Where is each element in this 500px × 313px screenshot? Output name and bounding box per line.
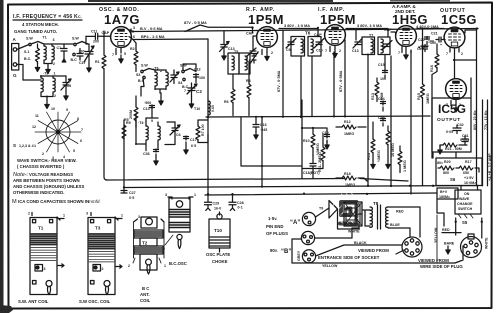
resistor R18 1MEG [336, 172, 367, 187]
variable cap C2 [184, 83, 202, 97]
switch S3 [136, 64, 149, 84]
svg-text:WAVE: WAVE [459, 197, 470, 201]
svg-text:7: 7 [81, 128, 83, 132]
capacitor C32 [446, 123, 464, 134]
svg-text:R18: R18 [344, 172, 351, 176]
junction dots [301, 127, 314, 129]
svg-text:R10: R10 [303, 139, 310, 143]
svg-text:R1: R1 [95, 60, 100, 64]
svg-text:R20: R20 [444, 160, 451, 164]
wires osc coil section [136, 105, 175, 151]
label 80V-1.0Ma RF plate [284, 23, 310, 28]
title OSC & MOD [99, 7, 140, 27]
svg-text:G: G [13, 73, 17, 78]
resistor R12 1MEG [336, 120, 366, 136]
svg-text:1: 1 [121, 214, 123, 218]
svg-text:10: 10 [51, 107, 55, 111]
tube U1 1A7G [111, 27, 132, 48]
resistor 10MEG [386, 126, 395, 169]
svg-text:1: 1 [63, 214, 65, 218]
svg-text:S6: S6 [450, 177, 456, 182]
junction dots bus116 [255, 115, 335, 118]
resistor R4 [224, 74, 235, 116]
svg-text:1A7G: 1A7G [104, 12, 140, 27]
wire bare [444, 218, 457, 254]
svg-text:R15: R15 [417, 93, 421, 100]
junction dots on buses [207, 185, 434, 196]
svg-text:GREY: GREY [297, 250, 301, 261]
label BC ANT COIL [140, 286, 151, 303]
tube U2 1P5M RF [257, 27, 278, 48]
wire T7 verticals [368, 55, 385, 187]
wires T6 down [301, 56, 312, 117]
title R.F. AMP [246, 7, 284, 27]
svg-text:1·5V.: 1·5V. [268, 216, 277, 221]
svg-text:12: 12 [32, 125, 36, 129]
label 87V - 0.5 Ma with callout [184, 20, 207, 32]
svg-text:WAVE SWITCH.- REAR VIEW.: WAVE SWITCH.- REAR VIEW. [17, 158, 77, 163]
tube U3 1P5M IF [325, 25, 346, 46]
capacitor C17 gang [79, 44, 94, 72]
svg-text:1P5M: 1P5M [248, 12, 284, 27]
label pin end of plugs [266, 224, 288, 236]
svg-text:CAP: CAP [102, 31, 110, 35]
wire 1C5G top to output [454, 49, 456, 78]
svg-text:3: 3 [44, 267, 46, 271]
svg-text:B.C: B.C [71, 58, 78, 62]
svg-text:C13: C13 [143, 107, 150, 111]
svg-text:S.W. ANT COIL: S.W. ANT COIL [18, 299, 49, 304]
svg-text:3: 3 [138, 215, 140, 219]
coil T4 osc plate [138, 118, 148, 145]
long vertical x411 [410, 50, 412, 186]
wire connector1 to speaker [316, 208, 360, 229]
bus A- y180 [106, 179, 408, 182]
bus B- y187 [124, 186, 478, 188]
svg-text:WHITE: WHITE [485, 237, 489, 249]
resistor R11 2MEG [318, 143, 325, 172]
svg-text:7: 7 [112, 53, 114, 57]
svg-text:R21 - 50M: R21 - 50M [445, 147, 462, 151]
capacitor C21 [417, 45, 428, 52]
svg-text:16·0: 16·0 [214, 207, 221, 211]
svg-text:C14: C14 [378, 97, 385, 101]
tube 1P5M RF pin stubs [257, 49, 273, 61]
svg-text:T1: T1 [38, 226, 44, 231]
svg-text:7: 7 [325, 49, 327, 53]
capacitor C29 16.0 [205, 194, 222, 210]
svg-text:PIN END: PIN END [266, 224, 283, 229]
svg-text:C15: C15 [378, 63, 385, 67]
svg-text:3 80V- 1·0 MA: 3 80V- 1·0 MA [357, 23, 382, 28]
svg-text:T10: T10 [214, 228, 222, 233]
IF transformer T6 [286, 31, 324, 57]
wire long vertical x208 (BP4 drop) [207, 39, 209, 195]
coil T2 BC ant primary [41, 72, 50, 97]
svg-text:S5: S5 [462, 220, 468, 225]
capacitor C28 0.1 [229, 194, 244, 210]
svg-text:ENTRANCE SIDE OF SOCKET: ENTRANCE SIDE OF SOCKET [318, 255, 380, 260]
pin dots 1A7G [133, 26, 135, 39]
vertical 87V line x283 [277, 31, 283, 117]
svg-text:COIL: COIL [140, 298, 151, 303]
svg-text:S.W: S.W [141, 64, 148, 68]
underline of IF frequency [13, 19, 82, 21]
svg-text:·045: ·045 [260, 128, 267, 132]
svg-text:B+V: B+V [440, 190, 448, 194]
svg-text:7: 7 [257, 51, 259, 55]
svg-text:YELLOW: YELLOW [322, 264, 338, 268]
choke T10 physical [209, 212, 230, 252]
wires R7 [198, 120, 208, 143]
battery plug A [268, 212, 316, 226]
svg-text:2: 2 [271, 51, 273, 55]
coil T2 physical BC ant [128, 215, 166, 274]
svg-text:C16: C16 [260, 123, 267, 127]
wire yellow B loop [292, 239, 309, 263]
svg-text:B.C.OSC: B.C.OSC [169, 261, 187, 266]
svg-text:T3: T3 [95, 226, 101, 231]
coil T4 tickler [151, 119, 160, 145]
bus y116 [206, 116, 430, 117]
wire C11 to tube cap [86, 36, 89, 44]
svg-text:M: M [12, 199, 17, 205]
coil T2 BC ant secondary [53, 72, 56, 99]
wire T2 top/bottom [23, 76, 66, 101]
svg-text:2: 2 [42, 152, 44, 156]
svg-text:6·5: 6·5 [191, 144, 196, 148]
svg-text:77V - 13 MA: 77V - 13 MA [484, 110, 488, 130]
output unit box [432, 98, 471, 152]
svg-text:IC5G: IC5G [438, 102, 466, 116]
label viewed from entrance [318, 248, 389, 260]
svg-text:6: 6 [133, 35, 135, 39]
svg-text:200M: 200M [129, 110, 133, 119]
speaker field coil [344, 202, 362, 226]
ground osc [159, 97, 163, 105]
svg-text:R2: R2 [130, 47, 135, 51]
svg-text:T10: T10 [194, 107, 200, 111]
svg-text:2: 2 [53, 62, 55, 66]
svg-text:0·1: 0·1 [238, 206, 243, 210]
capacitor C18b [418, 45, 428, 52]
svg-text:C36: C36 [143, 152, 150, 156]
resistor R9 [122, 121, 131, 139]
capacitor C16 [253, 117, 267, 139]
label CAP IF grid [384, 28, 396, 34]
svg-text:80V: 80V [437, 161, 443, 165]
label 40V-0.1Ma det plate [416, 24, 439, 29]
resistor R5 200M [124, 96, 138, 128]
svg-text:7: 7 [184, 89, 186, 93]
svg-text:BLACK: BLACK [354, 241, 367, 245]
svg-text:ANT.: ANT. [140, 292, 150, 297]
capacitor C17b 6.5 [184, 136, 197, 154]
svg-text:S: S [13, 143, 16, 148]
label 80V 180Ma left of box [437, 161, 443, 165]
svg-text:100: 100 [380, 77, 386, 81]
junction dots misc [40, 27, 478, 188]
wire speaker blue [388, 223, 410, 237]
svg-text:“A”: “A” [290, 220, 300, 226]
note: wave switch caption [12, 158, 101, 205]
resistor R7 100 [196, 124, 205, 143]
label SW ANT COIL [18, 299, 49, 304]
tube 1H5G pin stubs [398, 47, 412, 60]
svg-text:RED: RED [442, 228, 450, 232]
switch S1 [24, 37, 38, 62]
svg-text:1: 1 [164, 264, 166, 268]
capacitor C30 [378, 116, 386, 126]
svg-text:BLUE: BLUE [390, 223, 400, 227]
svg-text:C28: C28 [237, 201, 244, 205]
svg-text:C10: C10 [316, 49, 323, 53]
svg-text:R8: R8 [246, 79, 251, 83]
capacitor C1 [57, 44, 68, 62]
wire speaker yellow [309, 263, 455, 268]
svg-text:180MA: 180MA [439, 195, 450, 199]
variable cap C7 [246, 48, 256, 63]
svg-text:650: 650 [463, 171, 469, 175]
coil T1 physical SW ant [28, 212, 65, 295]
label BC OSC [169, 261, 187, 266]
resistor R8 [246, 62, 251, 116]
label OSC PLATE CHOKE [206, 252, 230, 264]
svg-text:2: 2 [410, 50, 412, 54]
wire volume line x124 [123, 120, 125, 193]
svg-text:1MEG: 1MEG [426, 93, 430, 104]
wire B.V. bus y31 [133, 29, 478, 32]
resistor 1MEG det [398, 146, 407, 173]
svg-text:GANG TUNED AUTO.: GANG TUNED AUTO. [14, 29, 57, 34]
label IC5G OUTPUT [437, 102, 466, 123]
label BP4 - 1.3 Ma [141, 34, 165, 39]
svg-text:R16: R16 [430, 65, 434, 72]
svg-text:R13: R13 [371, 93, 375, 100]
wire BP4 bus y39 [133, 38, 208, 41]
svg-text:1: 1 [34, 144, 36, 148]
wires lower right connect [391, 152, 478, 263]
svg-text:0.60: 0.60 [211, 105, 215, 112]
svg-text:C21: C21 [431, 32, 438, 36]
svg-text:2: 2 [459, 103, 461, 107]
IF transformer T5 [228, 50, 258, 74]
svg-text:2: 2 [102, 267, 104, 271]
svg-text:7: 7 [398, 51, 400, 55]
svg-text:C9: C9 [286, 48, 291, 52]
svg-text:C1: C1 [57, 46, 62, 50]
vertical text 80V-23Ma [473, 110, 477, 130]
svg-text:·T2·: ·T2· [43, 72, 50, 76]
wave switch rosette [32, 107, 83, 160]
svg-text:C32: C32 [457, 123, 464, 127]
svg-text:C20: C20 [418, 38, 425, 42]
svg-text:SWITCH: SWITCH [458, 207, 473, 211]
IF transformer T7 [352, 34, 392, 55]
wires R10 R11 region [302, 100, 327, 179]
antenna terminal A [12, 37, 19, 78]
svg-text:WIRE SIDE OF PLUG: WIRE SIDE OF PLUG [420, 264, 463, 269]
svg-text:½MEG: ½MEG [377, 150, 381, 162]
label B.V - 0.6 Ma [140, 26, 163, 31]
scan edge artifact left bar [0, 0, 4, 313]
tube 1P5M IF pin stubs [325, 46, 341, 58]
svg-text:“B”: “B” [281, 249, 291, 255]
svg-text:3: 3 [165, 193, 167, 197]
wire 1C5G top pin3 right [465, 30, 477, 33]
scan edge artifact bottom left blotch [0, 305, 13, 313]
svg-text:16·0MA: 16·0MA [464, 181, 476, 185]
svg-text:R5: R5 [124, 118, 129, 122]
wire R1 column down [104, 73, 107, 181]
scan edge artifact top strip [88, 0, 333, 2]
svg-text:11: 11 [35, 114, 39, 118]
svg-text:RED: RED [396, 210, 404, 214]
wire red to plug [442, 228, 461, 233]
capacitor C13 500 [143, 101, 155, 111]
ground T1 [44, 64, 52, 74]
wire speaker white [315, 228, 361, 238]
wire IF plate y28 [346, 29, 388, 38]
svg-text:1MEG: 1MEG [344, 132, 354, 136]
vertical text 77V-13Ma [484, 110, 488, 130]
capacitor C36 [143, 149, 159, 165]
wire T1 top [38, 42, 64, 45]
speaker T9 cone [319, 201, 338, 219]
wire speaker red [388, 207, 420, 237]
svg-text:2: 2 [128, 264, 130, 268]
svg-text:0·5: 0·5 [129, 196, 134, 200]
switch S2 [71, 37, 83, 63]
svg-text:VIEWED FROM: VIEWED FROM [418, 258, 449, 263]
svg-text:1 MEG: 1 MEG [403, 160, 407, 172]
svg-text:9: 9 [66, 108, 68, 112]
svg-text:0·003: 0·003 [460, 138, 469, 142]
svg-text:R14: R14 [367, 152, 371, 160]
svg-text:BP4 - 1·3 MA: BP4 - 1·3 MA [141, 34, 165, 39]
svg-text:CAP: CAP [314, 33, 322, 37]
svg-text:0·05: 0·05 [446, 130, 453, 134]
svg-text:1MEG: 1MEG [345, 183, 355, 187]
svg-text:S3: S3 [136, 73, 140, 77]
svg-text:ARE BETWEEN POINTS SHOWN: ARE BETWEEN POINTS SHOWN [13, 178, 80, 183]
svg-text:100: 100 [430, 41, 436, 45]
svg-text:mmfd.: mmfd. [88, 199, 101, 204]
svg-text:OF PLUGS: OF PLUGS [266, 231, 288, 236]
svg-text:+1·5V: +1·5V [464, 176, 474, 180]
capacitor 320 [77, 49, 85, 61]
title I.F. AMP [318, 7, 356, 27]
svg-text:R6: R6 [224, 100, 229, 104]
wire T1 to S2 [64, 42, 88, 45]
svg-text:CHOKE: CHOKE [212, 259, 228, 264]
svg-text:90V.: 90V. [270, 248, 278, 253]
tube 1A7G pin stubs [112, 48, 126, 63]
svg-text:80V - 23 MA: 80V - 23 MA [473, 110, 477, 130]
resistor R21 50M [438, 143, 467, 154]
junction dots lower [367, 185, 392, 187]
wire yellow vertical label [434, 215, 438, 262]
box S6 filament network [436, 158, 482, 186]
vertical x334 [333, 52, 335, 117]
svg-text:CAP: CAP [246, 32, 254, 36]
wire speaker black [316, 241, 403, 256]
svg-text:R17: R17 [465, 160, 472, 164]
svg-text:S.W: S.W [72, 37, 79, 41]
resistor R2 [130, 43, 138, 69]
svg-text:C11: C11 [91, 30, 97, 34]
svg-text:7: 7 [446, 52, 448, 56]
tube U5 1C5G top [444, 27, 465, 48]
tube 1C5G top pins [446, 48, 463, 56]
ground T2 [45, 101, 49, 109]
svg-text:T6: T6 [305, 31, 311, 36]
svg-text:3: 3 [53, 38, 55, 42]
bus C y194.5 [205, 193, 437, 195]
capacitor C11 200 [86, 30, 110, 44]
svg-text:3: 3 [86, 212, 88, 216]
battery plug B1 [301, 231, 314, 244]
svg-text:S.W: S.W [26, 37, 33, 41]
svg-text:C21: C21 [417, 47, 423, 51]
svg-text:( CHASSIS INVERTED ): ( CHASSIS INVERTED ) [17, 164, 65, 169]
output transformer T8 [370, 201, 388, 229]
svg-text:1,2,3 & 4: 1,2,3 & 4 [19, 144, 34, 148]
variable cap between T3 [170, 70, 179, 84]
svg-text:2: 2 [461, 52, 463, 56]
resistor R15 1MEG [417, 29, 430, 186]
svg-text:AND CHASSIS (GROUND) UNLESS: AND CHASSIS (GROUND) UNLESS [13, 184, 85, 189]
choke T10 in x208 line [194, 101, 215, 115]
svg-text:·500: ·500 [144, 101, 151, 105]
vertical text A+B amp right edge [488, 153, 492, 181]
svg-text:2: 2 [28, 212, 30, 216]
long vertical x477 [470, 78, 472, 98]
svg-text:5: 5 [73, 149, 75, 153]
long vertical x433 with resistor R16 [430, 44, 439, 158]
svg-text:C13: C13 [352, 49, 359, 53]
resistor ant shunt [35, 44, 39, 72]
svg-text:100: 100 [199, 76, 205, 80]
svg-text:S.1: S.1 [24, 50, 29, 54]
svg-text:T1: T1 [43, 36, 47, 40]
capacitor C19 [322, 131, 330, 149]
svg-text:3: 3 [133, 26, 135, 30]
capacitor C15 100 [378, 63, 388, 81]
svg-text:1: 1 [194, 193, 196, 197]
coil T1 secondary [52, 38, 55, 66]
coil T3 osc grid [153, 67, 160, 90]
speaker socket [402, 237, 422, 257]
wire T7 left vertical [355, 30, 357, 40]
wire cone to T8 [356, 210, 370, 226]
wire ant to switch [17, 45, 29, 81]
junction dot [261, 116, 263, 188]
tube U4 1H5G [396, 26, 417, 47]
wire det plate y28.5 [417, 28, 444, 30]
svg-text:YELLOW: YELLOW [434, 227, 438, 243]
wire white vertical label [481, 218, 489, 249]
capacitor C20 [418, 37, 436, 46]
svg-text:R12: R12 [344, 120, 351, 124]
coil T4 physical BC osc [163, 193, 196, 251]
svg-text:4 STATION MECH.: 4 STATION MECH. [22, 22, 59, 27]
capacitor C14 [378, 97, 386, 111]
svg-text:C6: C6 [176, 133, 181, 137]
svg-text:T9: T9 [319, 207, 323, 211]
svg-text:6: 6 [80, 139, 82, 143]
title OUTPUT [440, 8, 477, 27]
